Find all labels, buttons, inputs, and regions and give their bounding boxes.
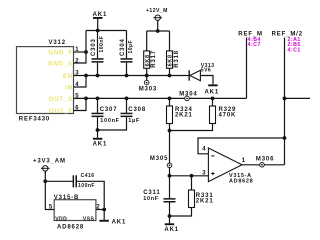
wire AK1 stem to ground rail [97, 19, 99, 31]
capacitor C308 plates [121, 113, 133, 117]
junction OUT net R329 [211, 97, 215, 101]
node M306 circle [260, 163, 265, 168]
wire REF_M/2 vertical [284, 38, 286, 165]
svg-text:VSS: VSS [83, 216, 95, 222]
wire C311 top lead [169, 176, 171, 198]
resistor R318 body [167, 51, 173, 68]
wire feedback -in loop [198, 138, 285, 154]
wire C304 top lead [126, 31, 128, 59]
wire C311 bottom lead [169, 203, 171, 224]
svg-text:100nF: 100nF [100, 118, 119, 124]
wire pin 1 stub [74, 51, 87, 53]
junction OUT net R324 [168, 97, 172, 101]
node M303 circle [144, 80, 149, 85]
junction EN net C304 [125, 74, 129, 78]
svg-text:2K21: 2K21 [196, 198, 214, 204]
wire R331 bottom lead [170, 208, 192, 217]
op-amp plus sign [211, 172, 214, 175]
resistor R329 body [210, 106, 216, 124]
wire +3V3 node to C416 [45, 180, 72, 182]
junction OUT net pin6 tie [84, 97, 88, 101]
junction +3V3 node [43, 179, 47, 183]
junction REF_M/2 right stub [283, 97, 287, 101]
wire C416 right to VSS corner [77, 181, 104, 209]
wire R324 top lead [169, 98, 171, 106]
capacitor C311 plates [164, 198, 176, 202]
resistor R317 body [144, 51, 150, 68]
wire REF_M/2 stub to page edge [285, 97, 311, 99]
svg-text:+12V_M: +12V_M [146, 8, 168, 14]
svg-text:R318: R318 [174, 50, 180, 68]
svg-text:GND_F: GND_F [48, 50, 73, 56]
svg-text:OUT_F: OUT_F [49, 109, 73, 115]
junction EN net C303 [96, 74, 100, 78]
svg-text:5V6: 5V6 [201, 68, 211, 74]
svg-text:6K8: 6K8 [168, 54, 174, 66]
op-amp V315-A triangle [208, 148, 242, 182]
junction divider node [168, 129, 172, 133]
wire divider node down to M305 [169, 131, 171, 164]
svg-text:VDD: VDD [55, 216, 67, 222]
svg-text:AK1: AK1 [112, 219, 127, 225]
ground AK1 (VSS) bar [99, 220, 109, 222]
svg-text:470K: 470K [219, 113, 237, 119]
wire diode anode to ground [200, 76, 213, 85]
svg-text:R317: R317 [151, 50, 157, 68]
diode V313 triangle [190, 70, 201, 80]
junction +12V rail [156, 29, 160, 33]
junction EN net R318 [168, 74, 172, 78]
svg-text:100nF: 100nF [99, 36, 105, 53]
junction VSS/C416/ground [102, 208, 106, 212]
junction EN net R317 [145, 74, 149, 78]
svg-text:IN: IN [65, 85, 73, 91]
svg-text:4:C1: 4:C1 [288, 47, 301, 53]
wire pins 1+2 to ground rail [74, 31, 87, 64]
svg-text:REF3430: REF3430 [19, 117, 50, 123]
op-amp power gate V315-B body [54, 200, 96, 221]
svg-text:AK1: AK1 [93, 141, 108, 147]
svg-text:V315-B: V315-B [54, 195, 79, 201]
wire op-amp output [242, 164, 285, 166]
svg-text:C307: C307 [100, 107, 118, 113]
svg-text:AK1: AK1 [205, 90, 220, 96]
svg-text:EN: EN [63, 74, 73, 80]
wire C304 bottom lead [126, 63, 128, 76]
resistor R324 body [167, 106, 173, 124]
svg-text:M303: M303 [139, 86, 157, 92]
capacitor C416 plates [73, 175, 77, 187]
wire R331 top lead [191, 176, 193, 190]
svg-text:100nF: 100nF [78, 183, 95, 189]
wire pin 2 stub [96, 209, 104, 211]
capacitor C304 plates [121, 58, 133, 62]
diode V313 cathode bar [188, 70, 190, 80]
wire R318 bottom lead [169, 68, 171, 75]
svg-text:C416: C416 [81, 173, 95, 179]
wire C303 bottom lead [97, 63, 99, 76]
junction +in node [168, 174, 172, 178]
wire +12V_M stem [157, 20, 159, 31]
junction OUT net C307 [96, 97, 100, 101]
wire R317 top lead [146, 31, 148, 51]
wire EN/IN net horizontal [74, 75, 190, 77]
wire +in node to op-amp [170, 175, 209, 177]
node M304 circle [185, 96, 190, 101]
wire +3V3_AM stem [44, 171, 46, 181]
ground AK1 (C311) bar [165, 223, 175, 225]
svg-text:AD8628: AD8628 [229, 178, 253, 184]
wire R329 top lead [212, 98, 214, 106]
junction R331 tap [190, 174, 194, 178]
wire ground rail top [86, 30, 127, 32]
wire C308 top lead [126, 98, 128, 112]
svg-text:AD8628: AD8628 [57, 224, 84, 230]
svg-text:C308: C308 [128, 107, 146, 113]
svg-text:GND_S: GND_S [48, 61, 73, 67]
junction on ground rail at AK1 [96, 29, 100, 33]
junction EN net pin4 tie [84, 74, 88, 78]
wire +3V3 down to pin 5 [45, 181, 54, 209]
svg-text:M306: M306 [256, 157, 274, 163]
capacitor C307 plates [92, 113, 104, 117]
ground AK1 (diode) bar [208, 84, 218, 86]
junction caps ground [96, 128, 100, 132]
svg-text:2K21: 2K21 [175, 113, 193, 119]
wire VSS ground stem [103, 210, 105, 220]
svg-text:M305: M305 [150, 156, 168, 162]
svg-text:10µF: 10µF [128, 40, 134, 54]
wire C307 bottom lead [97, 117, 99, 138]
resistor R331 body [189, 190, 195, 208]
svg-text:+3V3_AM: +3V3_AM [33, 159, 66, 165]
wire M305 to +in junction [169, 168, 171, 176]
junction OUT net C308 [125, 97, 129, 101]
svg-text:6K8: 6K8 [145, 54, 151, 66]
IC U V312 REF3430 body [17, 47, 74, 114]
svg-text:C304: C304 [120, 38, 126, 56]
svg-text:C303: C303 [91, 38, 97, 56]
wire R329 bottom lead to divider node [170, 124, 213, 131]
svg-text:M304: M304 [179, 92, 197, 98]
wire C307 top lead [97, 98, 99, 112]
wire OUT net horizontal [74, 97, 247, 99]
svg-text:4:C7: 4:C7 [248, 42, 261, 48]
wire REF_M vertical [246, 38, 248, 99]
wire pin 4 to EN net [74, 76, 87, 88]
supply +3V3_AM symbol [41, 166, 50, 171]
svg-text:10nF: 10nF [143, 196, 159, 202]
supply +12V_M symbol [153, 15, 162, 20]
ground AK1 (caps) bar [93, 138, 103, 140]
ground AK1 (top) bar [93, 17, 103, 19]
wire C308 bottom lead to C307 [98, 117, 127, 130]
junction REF_M/2 feedback [283, 136, 287, 140]
svg-text:OUT_S: OUT_S [49, 97, 73, 103]
svg-text:1µF: 1µF [128, 118, 140, 124]
junction pin1/pin2 tie [84, 50, 88, 54]
svg-text:AK1: AK1 [164, 227, 179, 233]
svg-text:V312: V312 [49, 40, 66, 46]
wire R324 bottom lead [169, 124, 171, 131]
node M305 circle [167, 163, 172, 168]
capacitor C303 plates [92, 58, 104, 62]
junction C311/R331 ground [168, 214, 172, 218]
node M303 stub [146, 76, 148, 81]
wire R318 top lead [169, 31, 171, 51]
op-amp minus sign [211, 155, 214, 157]
wire C303 top lead [97, 31, 99, 59]
wire +12V rail [147, 30, 170, 32]
wire pin 6 to OUT net [74, 98, 87, 110]
wire R317 bottom lead [146, 68, 148, 75]
